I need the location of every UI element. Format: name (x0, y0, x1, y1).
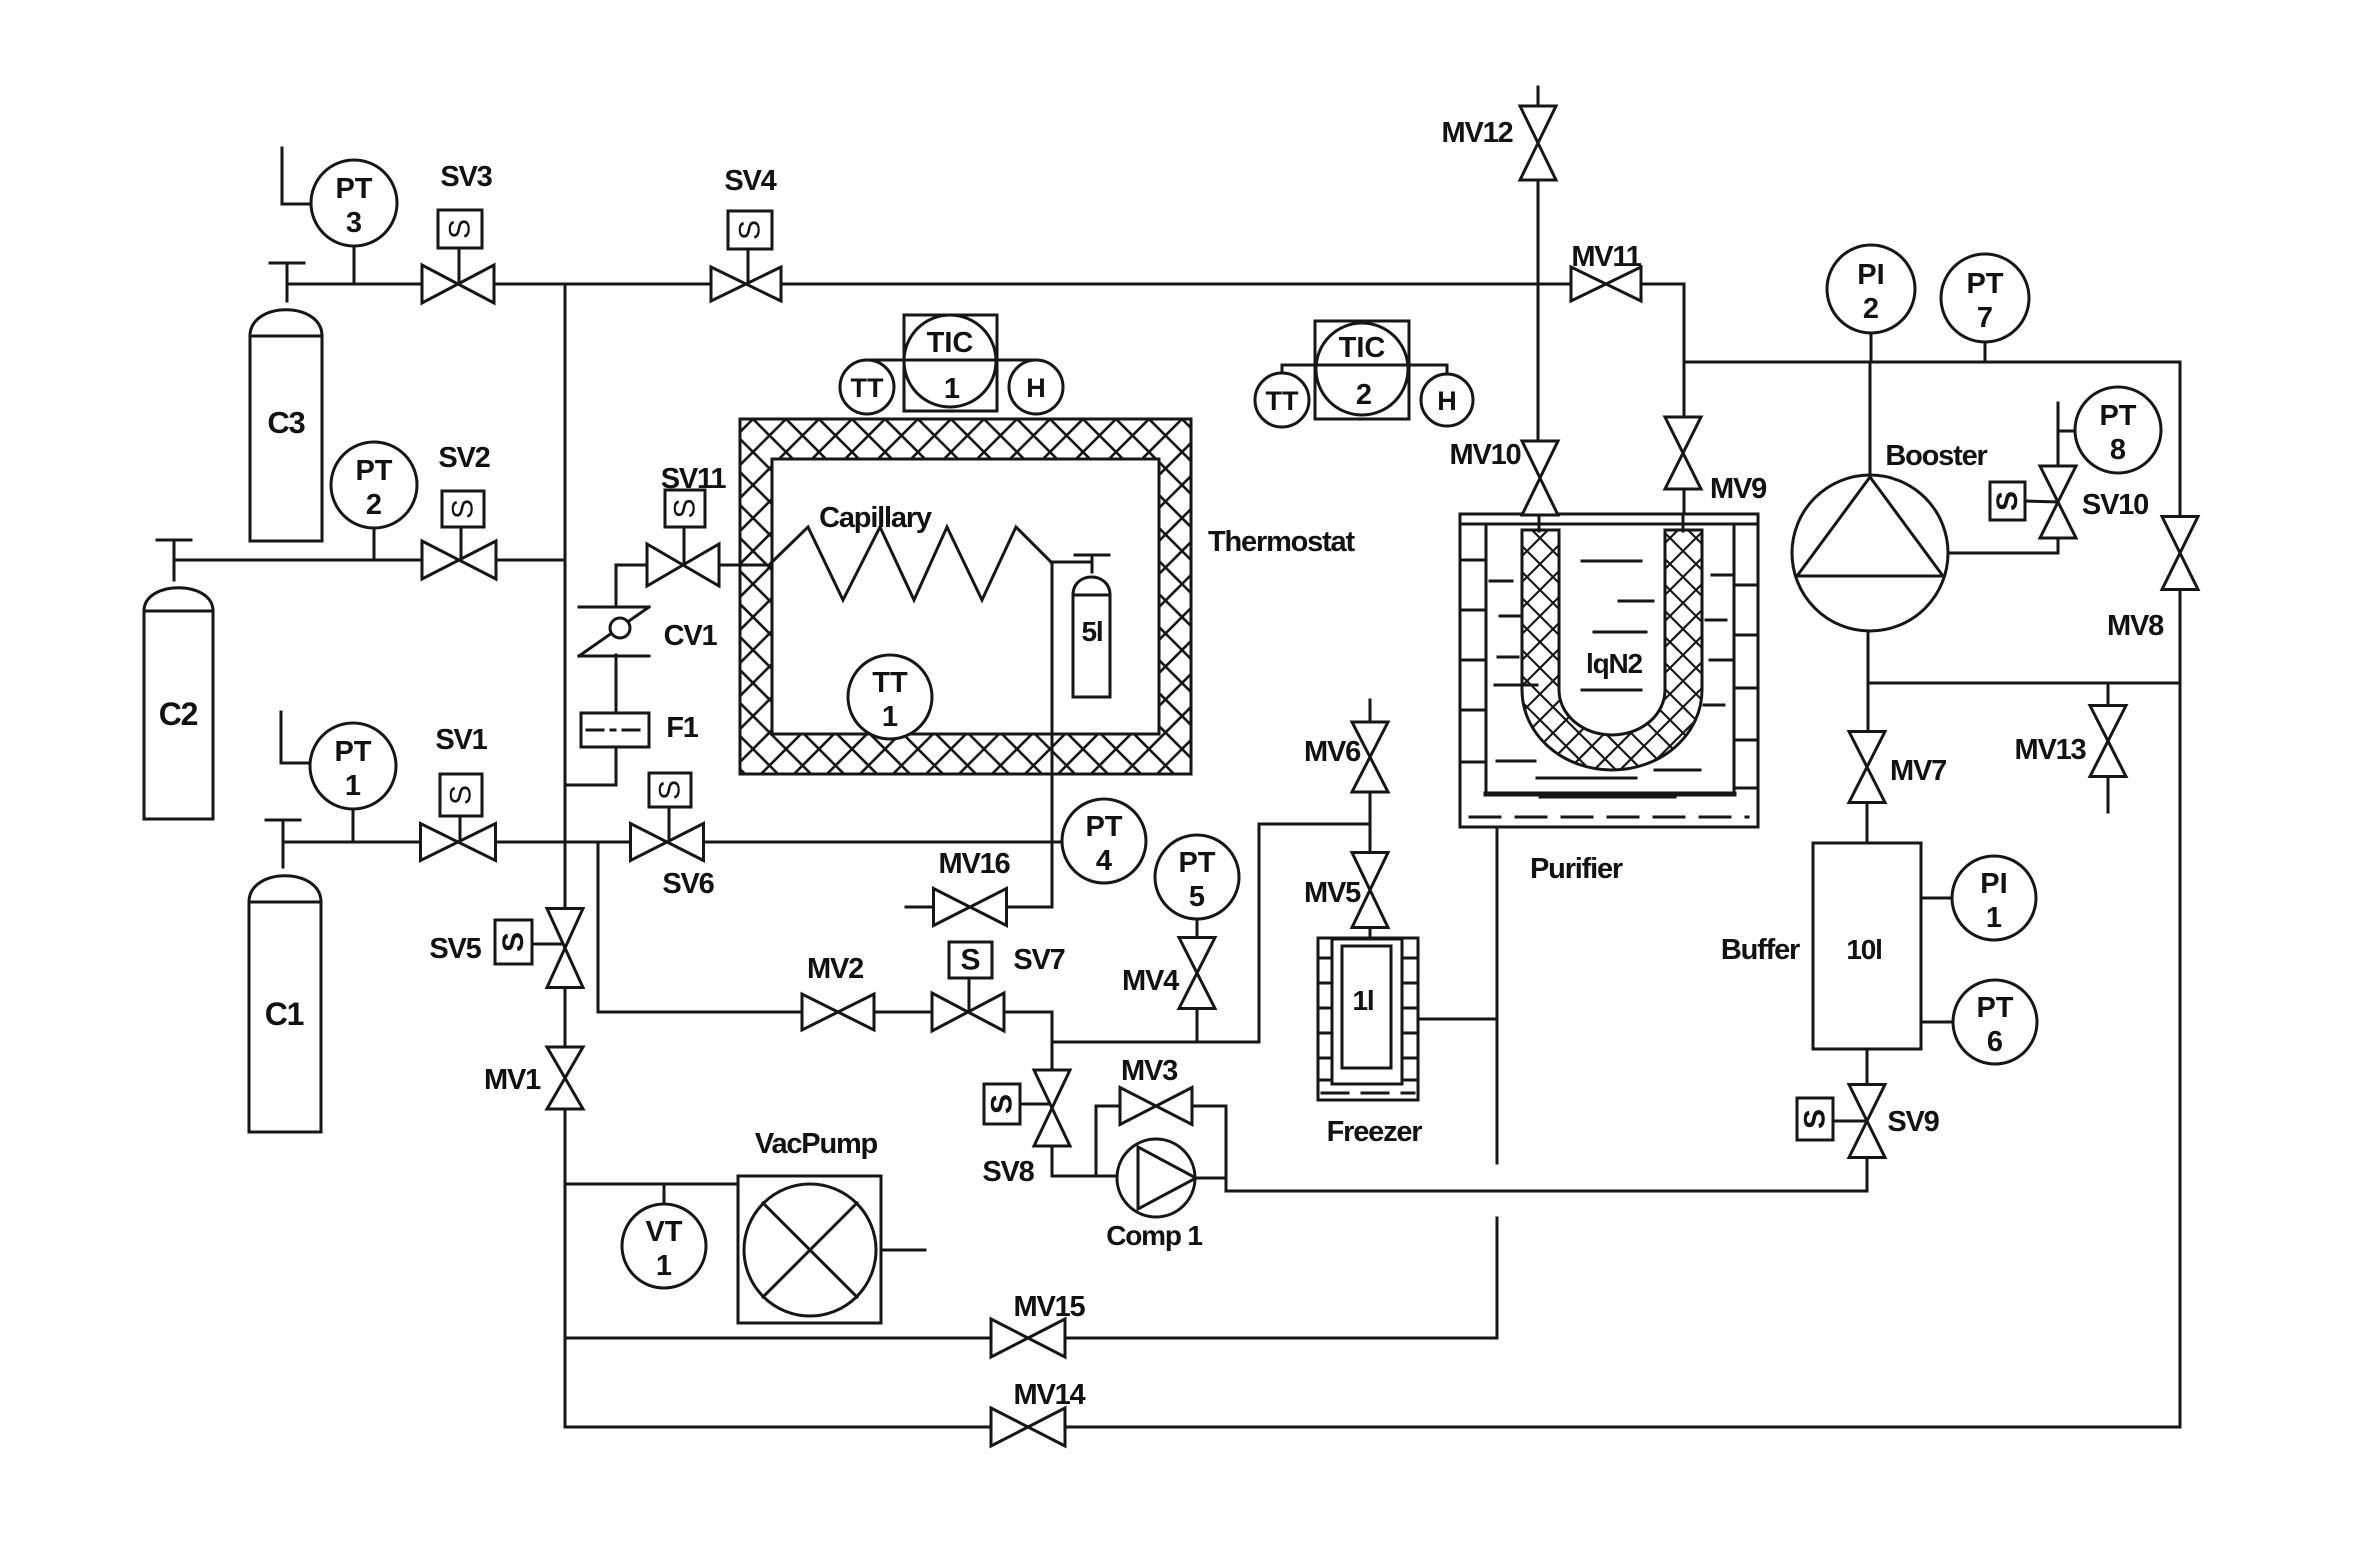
svg-text:H: H (1437, 386, 1457, 416)
svg-text:MV6: MV6 (1304, 736, 1361, 768)
instrument TT (TIC2) (1255, 373, 1309, 427)
wire PT1 vent bracket (281, 712, 310, 763)
wire PT7 stem (1984, 342, 1987, 362)
wire vertical main header x=565 (565, 284, 738, 1427)
wire MV6 top stub (1369, 700, 1372, 722)
Comp 1 label (1106, 1220, 1202, 1251)
svg-text:C1: C1 (265, 996, 304, 1032)
svg-text:2: 2 (1356, 379, 1372, 411)
wire C2 rail (174, 559, 565, 562)
svg-text:PT: PT (1966, 268, 2003, 300)
svg-text:SV2: SV2 (438, 442, 489, 474)
wire MV14 line (565, 1426, 2180, 1429)
wire PI2 stem (1870, 333, 1873, 362)
solenoid valve SV8 (984, 1070, 1070, 1146)
wire SV7 corner down (1051, 1012, 1054, 1070)
MV1 label (484, 1064, 541, 1096)
cylinder C1 (249, 820, 321, 1132)
svg-text:7: 7 (1977, 302, 1993, 334)
SV10 label (2082, 489, 2148, 521)
wire booster suction (1869, 362, 1872, 477)
wire PT5 stem (1196, 919, 1199, 938)
manual valve MV16 (934, 889, 1007, 926)
CV1 label (664, 620, 718, 652)
wire bypass right riser (1225, 1106, 1228, 1191)
svg-text:MV1: MV1 (484, 1064, 541, 1096)
wire freezer right port (1418, 1018, 1497, 1021)
svg-text:PI: PI (1857, 259, 1884, 291)
svg-text:MV16: MV16 (939, 848, 1011, 880)
MV3 label (1121, 1055, 1178, 1087)
manual valve MV13 (2090, 706, 2126, 777)
capillary label (819, 502, 932, 534)
svg-text:SV11: SV11 (661, 463, 727, 495)
compressor Comp 1 (1117, 1139, 1196, 1217)
F1 label (666, 712, 699, 744)
manual valve MV8 (2162, 517, 2198, 590)
instrument PT2 (331, 442, 417, 528)
svg-text:Capillary: Capillary (819, 502, 932, 534)
svg-text:SV3: SV3 (440, 161, 492, 193)
svg-text:SV8: SV8 (982, 1156, 1034, 1188)
svg-text:SV6: SV6 (662, 868, 714, 900)
svg-text:S: S (960, 944, 980, 977)
thermostat label (1208, 526, 1355, 558)
wire booster bypass line y=683 (1868, 682, 2180, 685)
svg-text:TIC: TIC (927, 327, 974, 359)
MV14 label (1014, 1379, 1086, 1411)
solenoid valve SV2 (422, 491, 496, 579)
wire MV10 stem into purifier (1538, 514, 1541, 531)
svg-text:S: S (447, 499, 480, 519)
svg-text:PT: PT (1178, 847, 1215, 879)
svg-text:H: H (1026, 373, 1046, 403)
svg-text:C2: C2 (159, 696, 198, 732)
SV9 label (1887, 1106, 1939, 1138)
wire main top rail (287, 283, 1684, 286)
svg-text:MV14: MV14 (1014, 1379, 1086, 1411)
purifier liquid level marks (1490, 561, 1731, 797)
solenoid valve SV9 (1797, 1085, 1885, 1158)
wire MV5 to freezer (1369, 928, 1372, 947)
SV3 label (440, 161, 492, 193)
svg-text:TT: TT (851, 373, 884, 403)
cylinder C2 (144, 540, 213, 819)
manual valve MV14 (991, 1408, 1065, 1446)
wire SV11 to CV1 (616, 565, 647, 607)
buffer vessel 10l (1813, 843, 1921, 1049)
instrument H (TIC2) (1421, 374, 1473, 426)
SV8 label (982, 1156, 1034, 1188)
manual valve MV1 (547, 1047, 583, 1109)
wire F1 to header (565, 747, 616, 785)
cylinder C3 (250, 263, 322, 541)
instrument PT4 (1062, 799, 1146, 883)
purifier lqN2 label (1586, 648, 1643, 679)
wire Comp1 bypass left riser (1095, 1106, 1098, 1176)
wire MV7 to buffer (1866, 803, 1869, 843)
solenoid valve SV3 (422, 210, 494, 303)
svg-text:2: 2 (1863, 293, 1879, 325)
thermostat insulated box (40, 300, 1994, 1000)
SV1 label (435, 724, 487, 756)
MV11 label (1571, 241, 1641, 273)
svg-text:PT: PT (1976, 992, 2013, 1024)
wire PT3 stem (353, 246, 356, 284)
svg-text:MV15: MV15 (1014, 1291, 1086, 1323)
wire TIC1 signal line (868, 359, 1035, 362)
svg-text:S: S (986, 1094, 1019, 1114)
svg-text:MV10: MV10 (1450, 439, 1521, 471)
booster pump (1792, 475, 1948, 631)
svg-text:C3: C3 (267, 405, 305, 440)
wire PI1 stem (1921, 897, 1952, 900)
freezer label (1327, 1116, 1423, 1148)
MV7 label (1890, 755, 1946, 787)
filter F1 (581, 713, 649, 747)
svg-text:S: S (445, 785, 478, 805)
svg-text:F1: F1 (666, 712, 699, 744)
wire TIC2 signal line (1282, 365, 1447, 375)
wire MV4 stem (1196, 1009, 1199, 1042)
wire MV9 riser (1683, 284, 1686, 530)
solenoid valve SV7 (932, 942, 1004, 1031)
controller TIC1 (904, 315, 997, 411)
svg-text:Purifier: Purifier (1530, 853, 1623, 885)
instrument PT7 (1941, 254, 2029, 342)
svg-text:Freezer: Freezer (1327, 1116, 1423, 1148)
solenoid valve SV11 (647, 490, 719, 586)
svg-text:6: 6 (1987, 1026, 2003, 1058)
svg-text:S: S (497, 932, 530, 952)
manual valve MV12 (1520, 106, 1556, 180)
svg-text:SV7: SV7 (1013, 944, 1064, 976)
svg-text:lqN2: lqN2 (1586, 648, 1643, 679)
vessel 5l (1051, 555, 1110, 697)
wire buffer to SV9 (1866, 1049, 1869, 1085)
svg-text:Thermostat: Thermostat (1208, 526, 1355, 558)
purifier label (1530, 853, 1623, 885)
wire booster to MV7 (1867, 630, 1870, 732)
svg-text:MV12: MV12 (1442, 117, 1513, 149)
svg-text:MV2: MV2 (807, 953, 863, 985)
manual valve MV3 (1120, 1088, 1192, 1125)
svg-text:S: S (1799, 1109, 1832, 1129)
purifier vessel (1460, 514, 1758, 827)
instrument PT1 (310, 723, 396, 809)
svg-text:10l: 10l (1846, 934, 1881, 965)
solenoid valve SV4 (711, 211, 781, 301)
svg-text:MV7: MV7 (1890, 755, 1946, 787)
manual valve MV7 (1849, 732, 1885, 803)
manual valve MV5 (1352, 853, 1388, 928)
wire CV1 to F1 (615, 655, 618, 713)
instrument PT5 (1155, 835, 1239, 919)
SV5 label (429, 933, 481, 965)
svg-text:VacPump: VacPump (755, 1128, 878, 1160)
svg-text:TT: TT (872, 667, 908, 699)
wire MV3 left link (1096, 1105, 1120, 1108)
svg-text:TIC: TIC (1339, 332, 1386, 364)
svg-text:Comp 1: Comp 1 (1106, 1220, 1202, 1251)
solenoid valve SV1 (421, 774, 496, 861)
buffer label (1721, 934, 1800, 966)
svg-text:CV1: CV1 (664, 620, 718, 652)
wire purifier drain upper (1496, 827, 1499, 1163)
svg-text:PT: PT (335, 173, 372, 205)
solenoid valve SV6 (631, 773, 704, 861)
svg-text:2: 2 (366, 489, 382, 521)
instrument PT8 (2075, 387, 2161, 473)
svg-text:PI: PI (1980, 868, 2007, 900)
booster label (1885, 440, 1987, 472)
wire SV10 vent riser (2058, 403, 2075, 466)
wire SV11 to capillary (719, 564, 772, 567)
wire MV12/MV10 riser (1537, 87, 1540, 530)
wire PT2 stem (373, 528, 376, 560)
manual valve MV10 (1522, 441, 1558, 515)
svg-text:MV13: MV13 (2015, 734, 2087, 766)
svg-text:3: 3 (346, 207, 362, 239)
svg-text:SV10: SV10 (2082, 489, 2148, 521)
capillary coil (771, 527, 1051, 600)
manual valve MV9 (1665, 417, 1701, 489)
wire VacPump outlet stub (881, 1249, 925, 1252)
wire Comp1 outlet (1195, 1177, 1226, 1180)
instrument PI1 (1952, 856, 2036, 940)
instrument VT1 (622, 1204, 706, 1288)
wire MV13 stems (2107, 683, 2110, 812)
svg-text:MV11: MV11 (1571, 241, 1641, 273)
wire PT6 stem (1921, 1021, 1953, 1024)
svg-text:PT: PT (355, 455, 392, 487)
svg-text:Buffer: Buffer (1721, 934, 1800, 966)
wire SV7 rail (598, 1011, 1052, 1014)
wire freezer riser x=1259 (1258, 824, 1261, 1042)
manual valve MV2 (802, 994, 874, 1030)
wire purifier drain lower (1496, 1218, 1499, 1338)
wire PT3 vent bracket (282, 148, 311, 204)
svg-text:MV5: MV5 (1304, 877, 1361, 909)
SV4 label (724, 165, 776, 197)
SV2 label (438, 442, 489, 474)
wire MV3 right link (1192, 1105, 1226, 1108)
wire C1 rail (283, 841, 1063, 844)
svg-text:8: 8 (2110, 434, 2126, 466)
MV4 label (1122, 965, 1179, 997)
MV9 label (1710, 473, 1767, 505)
solenoid valve SV5 (495, 909, 583, 988)
svg-text:TT: TT (1266, 386, 1299, 416)
svg-text:1l: 1l (1353, 985, 1374, 1016)
svg-text:1: 1 (882, 701, 898, 733)
MV16 label (939, 848, 1011, 880)
wire booster rail y=362 (1684, 361, 2180, 364)
wire SV8 to Comp1 (1052, 1146, 1118, 1176)
MV10 label (1450, 439, 1521, 471)
manual valve MV6 (1352, 722, 1388, 792)
VacPump label (755, 1128, 878, 1160)
svg-text:SV9: SV9 (1887, 1106, 1939, 1138)
svg-text:1: 1 (944, 373, 960, 405)
svg-text:1: 1 (656, 1250, 672, 1282)
wire thermostat 5l drop line (1051, 562, 1054, 907)
freezer vessel 1l (1318, 938, 1418, 1100)
wire Comp1 to SV9 line (1226, 1158, 1867, 1191)
check valve CV1 (579, 607, 649, 656)
MV5 label (1304, 877, 1361, 909)
svg-text:VT: VT (645, 1216, 682, 1248)
wire MV2/SV7 branch down (597, 842, 600, 1012)
instrument TT1 (848, 655, 932, 739)
svg-text:5: 5 (1189, 881, 1205, 913)
SV7 label (1013, 944, 1064, 976)
solenoid valve SV10 (1990, 466, 2076, 538)
instrument TT (TIC1) (840, 360, 894, 414)
manual valve MV4 (1179, 938, 1215, 1009)
manual valve MV15 (991, 1319, 1065, 1357)
wire MV4 bottom rail (1052, 1041, 1259, 1044)
svg-text:PT: PT (334, 736, 371, 768)
MV6 label (1304, 736, 1361, 768)
MV2 label (807, 953, 863, 985)
wire MV9 stem into purifier (1682, 514, 1685, 531)
wire MV6-MV5 link (1259, 792, 1370, 853)
svg-text:SV4: SV4 (724, 165, 776, 197)
svg-text:Booster: Booster (1885, 440, 1987, 472)
svg-text:4: 4 (1096, 845, 1112, 877)
purifier lqN2 U-tube (1000, 440, 2260, 1000)
svg-text:S: S (1991, 491, 2024, 511)
wire booster discharge (1948, 538, 2058, 553)
instrument H (TIC1) (1009, 360, 1063, 414)
svg-text:MV8: MV8 (2107, 610, 2164, 642)
wire PT1 stem (352, 809, 355, 842)
svg-text:5l: 5l (1082, 616, 1103, 647)
svg-text:S: S (734, 220, 767, 240)
instrument PT3 (311, 160, 397, 246)
wire MV15 line (565, 1337, 1497, 1340)
svg-text:SV5: SV5 (429, 933, 481, 965)
svg-text:S: S (669, 498, 702, 518)
MV15 label (1014, 1291, 1086, 1323)
SV11 label (661, 463, 727, 495)
svg-text:1: 1 (345, 770, 361, 802)
MV8 label (2107, 610, 2164, 642)
wire right header x=2180 (2179, 362, 2182, 1427)
manual valve MV11 (1571, 267, 1641, 301)
svg-text:S: S (654, 780, 687, 800)
MV13 label (2015, 734, 2087, 766)
svg-text:S: S (444, 219, 477, 239)
svg-text:MV9: MV9 (1710, 473, 1767, 505)
instrument PT6 (1953, 980, 2037, 1064)
svg-text:PT: PT (1085, 811, 1122, 843)
svg-text:PT: PT (2099, 400, 2136, 432)
svg-text:MV3: MV3 (1121, 1055, 1178, 1087)
SV6 label (662, 868, 714, 900)
vacuum pump VacPump (738, 1176, 881, 1323)
instrument PI2 (1827, 245, 1915, 333)
svg-text:MV4: MV4 (1122, 965, 1179, 997)
svg-text:SV1: SV1 (435, 724, 487, 756)
svg-text:1: 1 (1986, 902, 2002, 934)
wire MV16 line (906, 906, 1052, 909)
MV12 label (1442, 117, 1513, 149)
controller TIC2 (1315, 321, 1409, 419)
wire VT1 stem (663, 1184, 666, 1204)
